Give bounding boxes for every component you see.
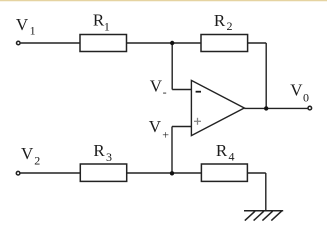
wire V1 to R1 xyxy=(21,42,80,44)
wire R2 to corner xyxy=(248,42,267,44)
op-amp plus symbol xyxy=(194,118,201,125)
wire to op-amp plus xyxy=(172,126,191,128)
svg-text:R: R xyxy=(216,141,228,160)
wire R4 to corner xyxy=(247,172,265,174)
op-amp U1 xyxy=(191,80,244,135)
wire to op-amp minus xyxy=(172,89,191,91)
resistor R3 xyxy=(80,164,126,181)
svg-text:V: V xyxy=(150,76,163,95)
terminal V0 xyxy=(308,106,312,110)
wire R1 to R2 xyxy=(127,42,202,44)
svg-text:V: V xyxy=(149,117,162,136)
op-amp minus symbol xyxy=(196,91,201,93)
resistor R2 xyxy=(201,35,248,52)
svg-text:+: + xyxy=(162,128,169,142)
terminal V2 xyxy=(16,171,20,175)
svg-text:-: - xyxy=(163,85,167,99)
svg-text:V: V xyxy=(16,15,29,34)
svg-text:V: V xyxy=(21,144,34,163)
wire node B up to plus input xyxy=(171,127,173,174)
ground xyxy=(244,211,283,221)
svg-text:R: R xyxy=(214,11,226,30)
svg-text:0: 0 xyxy=(303,91,309,105)
wire R3 to R4 xyxy=(127,172,202,174)
svg-text:2: 2 xyxy=(227,19,233,33)
junction node B (bottom) xyxy=(170,171,174,175)
svg-text:R: R xyxy=(93,141,105,160)
wire down to ground xyxy=(265,173,267,210)
terminal V1 xyxy=(17,41,21,45)
wire V2 to R3 xyxy=(20,172,80,174)
resistor R1 xyxy=(80,35,127,52)
junction node A (top) xyxy=(170,41,174,45)
svg-text:4: 4 xyxy=(229,150,235,164)
junction output node xyxy=(264,106,268,110)
wire down from R2 to output node xyxy=(265,43,267,108)
output wire xyxy=(244,107,308,109)
svg-text:1: 1 xyxy=(104,19,110,33)
decorative top border xyxy=(0,0,327,1)
svg-text:1: 1 xyxy=(30,24,36,38)
svg-text:3: 3 xyxy=(106,150,112,164)
wire node A down to minus input xyxy=(171,43,173,90)
svg-text:V: V xyxy=(290,81,303,100)
resistor R4 xyxy=(201,164,247,181)
svg-text:2: 2 xyxy=(34,154,40,168)
